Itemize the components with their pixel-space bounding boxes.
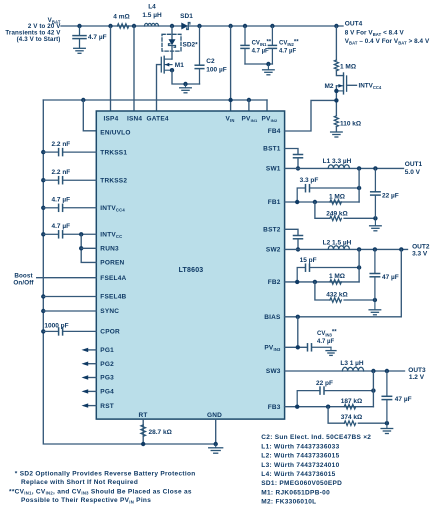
svg-text:FB4: FB4 xyxy=(268,128,281,135)
svg-text:4.7 µF: 4.7 µF xyxy=(88,34,107,41)
svg-text:4.7 µF: 4.7 µF xyxy=(252,49,269,55)
node junction FB3/374k xyxy=(326,405,330,409)
ground OUT2 xyxy=(369,300,381,315)
svg-text:1 MΩ: 1 MΩ xyxy=(340,63,356,70)
node OUT3 labels xyxy=(408,367,426,381)
wire 110k to ground xyxy=(335,127,337,132)
svg-text:Boost: Boost xyxy=(14,273,33,280)
svg-text:2.2 nF: 2.2 nF xyxy=(52,169,71,176)
node VBAT input labels xyxy=(5,17,61,43)
svg-text:L1 3.3 µH: L1 3.3 µH xyxy=(323,158,352,165)
svg-text:OUT2: OUT2 xyxy=(412,243,430,250)
svg-text:TRKSS1: TRKSS1 xyxy=(100,149,127,156)
svg-text:TRKSS2: TRKSS2 xyxy=(100,177,127,184)
svg-text:OUT1: OUT1 xyxy=(405,161,423,168)
wire CVIN1/CVIN2 ground bus xyxy=(245,63,272,65)
wire PG4 arrow xyxy=(87,390,96,392)
node junction PVIN1 pin xyxy=(247,98,251,102)
svg-text:INTVCC4: INTVCC4 xyxy=(359,83,382,90)
wire PVIN2 drop xyxy=(266,100,268,111)
transistor M2 NMOS xyxy=(336,73,346,94)
svg-text:15 pF: 15 pF xyxy=(300,257,317,264)
wire SYNC xyxy=(43,310,96,312)
ground CVIN caps xyxy=(263,64,275,75)
node junction VIN pin xyxy=(228,98,232,102)
wire ISP4 to rail xyxy=(110,26,112,111)
svg-text:SYNC: SYNC xyxy=(100,308,119,315)
wire EN/UVLO drop xyxy=(83,100,96,131)
node OUT2 labels xyxy=(412,243,430,257)
svg-text:SD1: PMEG060V050EPD: SD1: PMEG060V050EPD xyxy=(261,480,342,487)
svg-text:CPOR: CPOR xyxy=(100,329,120,336)
svg-text:PG3: PG3 xyxy=(100,375,114,382)
wire PG2 arrow xyxy=(87,363,96,365)
node junction INTVCC/RUN3 xyxy=(79,232,83,236)
wire GND pin drop xyxy=(215,419,217,444)
svg-text:PG4: PG4 xyxy=(100,389,114,396)
ground OUT3 xyxy=(381,423,393,433)
wire M2 gate to INTVCC4 xyxy=(347,84,357,86)
svg-text:100 µF: 100 µF xyxy=(206,66,226,73)
svg-text:FSEL4B: FSEL4B xyxy=(100,294,126,301)
node junction FB3/22pF xyxy=(295,405,299,409)
wire VIN distribution / EN-UVLO horizontal xyxy=(43,99,267,101)
wire FB3 xyxy=(285,406,374,408)
wire PG1 arrow xyxy=(87,349,96,351)
svg-text:RT: RT xyxy=(138,412,147,419)
node junction L2/FB vertical xyxy=(357,247,361,251)
capacitor 22uF OUT1 xyxy=(371,168,380,218)
wire FSEL4B xyxy=(43,296,96,298)
svg-text:BST1: BST1 xyxy=(263,146,281,153)
ground main xyxy=(209,444,223,453)
node junction FB1/3.3pF xyxy=(295,200,299,204)
wire M1 gate to GATE4 xyxy=(157,65,162,111)
node junction 3.3pF/1M vertical xyxy=(357,186,361,190)
node Boost On/Off label xyxy=(13,273,34,287)
svg-text:OUT3: OUT3 xyxy=(408,367,426,374)
svg-text:5.0 V: 5.0 V xyxy=(405,169,421,176)
node junction GND/ground rail xyxy=(214,442,218,446)
svg-text:SD2*: SD2* xyxy=(183,42,199,49)
svg-text:22 µF: 22 µF xyxy=(382,192,399,199)
capacitor 47uF OUT2 xyxy=(370,249,379,300)
capacitor CVIN3 4.7uF xyxy=(317,330,337,345)
svg-text:47 µF: 47 µF xyxy=(382,274,399,281)
wire FB2 top divider vertical xyxy=(358,249,360,282)
node junction RT/ground rail xyxy=(141,442,145,446)
wire BIAS to PVIN3 xyxy=(297,317,299,348)
wire 1M to M2 drain xyxy=(336,71,343,76)
node junction L3/47uF xyxy=(385,369,389,373)
wire FB2 xyxy=(285,281,360,283)
node junction 15pF/1M vertical xyxy=(357,265,361,269)
svg-text:ISP4: ISP4 xyxy=(104,115,119,122)
resistor 110k xyxy=(334,116,338,127)
svg-text:RUN3: RUN3 xyxy=(100,246,119,253)
svg-text:L2: Würth 74437336015: L2: Würth 74437336015 xyxy=(261,453,339,460)
svg-text:3.3 V: 3.3 V xyxy=(412,251,428,258)
wire RT drop xyxy=(142,419,144,444)
svg-text:GATE4: GATE4 xyxy=(147,115,169,122)
svg-text:**CVIN1, CVIN2, and CVIN3 Shou: **CVIN1, CVIN2, and CVIN3 Should Be Plac… xyxy=(9,488,192,495)
capacitor BST1 xyxy=(294,155,303,158)
note parts list xyxy=(261,434,371,505)
wire VBAT top rail xyxy=(61,25,343,27)
ground input cap xyxy=(74,48,86,53)
wire BST2 xyxy=(285,229,298,235)
node OUT4 labels xyxy=(345,21,430,46)
wire FB3 top divider vertical xyxy=(372,371,374,407)
svg-text:L1: Würth 74437336033: L1: Würth 74437336033 xyxy=(261,443,339,450)
svg-text:249 kΩ: 249 kΩ xyxy=(326,210,347,217)
svg-text:POREN: POREN xyxy=(100,260,124,267)
node junction TRKSS2/bus xyxy=(41,178,45,182)
node junction M2 source xyxy=(334,89,338,93)
node junction SYNC/bus xyxy=(41,309,45,313)
wire SW3 output xyxy=(285,370,405,372)
wire ISN4 to rail xyxy=(133,26,135,111)
node junction SD1/C2 xyxy=(197,24,201,28)
svg-text:LT8603: LT8603 xyxy=(179,267,204,274)
svg-text:C2: Sun Elect. Ind. 50CE47BS ×: C2: Sun Elect. Ind. 50CE47BS ×2 xyxy=(261,434,371,441)
node junction L1/22uF xyxy=(373,166,377,170)
resistor RT 28.7k xyxy=(141,425,146,436)
svg-text:C2: C2 xyxy=(206,58,215,65)
node junction M1 source xyxy=(170,68,174,72)
svg-text:28.7 kΩ: 28.7 kΩ xyxy=(149,429,172,436)
node junction OUT2/BIAS xyxy=(399,247,403,251)
capacitor CVIN1 4.7uF xyxy=(241,26,249,64)
svg-text:RST: RST xyxy=(100,403,114,410)
svg-text:187 kΩ: 187 kΩ xyxy=(341,398,362,405)
node junction CVIN2/rail xyxy=(270,24,274,28)
svg-text:M1: M1 xyxy=(175,62,184,69)
node junction BIAS/CVIN3 xyxy=(296,315,300,319)
svg-text:3.3 pF: 3.3 pF xyxy=(300,177,319,184)
wire SW2 output xyxy=(285,248,408,250)
inductor L4 1.5uH xyxy=(142,3,162,19)
wire M1 source to ground rail xyxy=(172,70,200,84)
wire left ground bus xyxy=(43,100,215,444)
wire FB4 to divider xyxy=(285,100,337,131)
svg-text:4.7 µF: 4.7 µF xyxy=(52,197,71,204)
note asterisk SD2 xyxy=(9,470,195,504)
svg-text:SW1: SW1 xyxy=(266,166,281,173)
svg-text:1000 pF: 1000 pF xyxy=(44,322,68,329)
svg-text:1.5 µH: 1.5 µH xyxy=(142,12,162,19)
node OUT1 labels xyxy=(405,161,423,176)
node junction PVIN3/CVIN3 xyxy=(296,345,300,349)
svg-text:2.2 nF: 2.2 nF xyxy=(52,141,71,148)
ground 110k xyxy=(331,132,343,137)
svg-text:* SD2 Optionally Provides Reve: * SD2 Optionally Provides Reverse Batter… xyxy=(15,470,196,477)
svg-text:GND: GND xyxy=(207,412,222,419)
svg-text:374 kΩ: 374 kΩ xyxy=(341,414,362,421)
wire PG3 arrow xyxy=(87,377,96,379)
svg-text:EN/UVLO: EN/UVLO xyxy=(100,129,130,136)
svg-text:FB2: FB2 xyxy=(268,279,281,286)
svg-text:FB1: FB1 xyxy=(268,199,281,206)
op-amp U1 LT8603 IC body xyxy=(96,111,284,419)
node junction CVIN1/rail xyxy=(243,24,247,28)
svg-text:FSEL4A: FSEL4A xyxy=(100,275,126,282)
svg-text:BST2: BST2 xyxy=(263,227,281,234)
svg-text:On/Off: On/Off xyxy=(13,280,34,287)
svg-text:FB3: FB3 xyxy=(268,404,281,411)
svg-text:BIAS: BIAS xyxy=(264,314,281,321)
wire SW1 output xyxy=(285,167,404,169)
node junction FB1/249k xyxy=(313,200,317,204)
svg-text:L4: Würth 7443736015: L4: Würth 7443736015 xyxy=(261,471,335,478)
diode SD2 reverse protection (dashed box) xyxy=(162,34,181,51)
wire RST arrow xyxy=(87,405,96,407)
node junction ISP4/rail xyxy=(108,24,112,28)
node junction 432k/47uF ground xyxy=(373,298,377,302)
svg-text:CVIN2**: CVIN2** xyxy=(279,39,299,47)
capacitor BST2 xyxy=(294,236,303,239)
node junction 374k/47uF ground xyxy=(385,421,389,425)
capacitor 47uF OUT3 xyxy=(382,371,391,423)
node junction 249k/22uF ground xyxy=(373,216,377,220)
node junction 22pF/187k vertical xyxy=(371,388,375,392)
node junction FSEL4B/bus xyxy=(41,294,45,298)
node junction RUN3 xyxy=(79,246,83,250)
node junction FB2/15pF xyxy=(295,280,299,284)
node junction L3/FB vertical xyxy=(371,369,375,373)
wire M1 drain up xyxy=(171,26,173,59)
svg-text:1.2 V: 1.2 V xyxy=(409,374,425,381)
node junction VIN feed/rail xyxy=(228,24,232,28)
svg-text:PG2: PG2 xyxy=(100,361,114,368)
svg-text:Replace with Short If Not Requ: Replace with Short If Not Required xyxy=(21,479,138,486)
capacitor C2 100uF xyxy=(195,26,204,84)
node junction BST1/SW1 xyxy=(296,166,300,170)
node junction CPOR/bus xyxy=(41,329,45,333)
svg-text:SW3: SW3 xyxy=(266,368,281,375)
resistor 1M OUT4 divider xyxy=(334,60,338,71)
node junction L4/SD1/SD2 xyxy=(170,24,174,28)
wire OUT2 to BIAS xyxy=(285,249,402,316)
node junction INTVCC/bus xyxy=(41,232,45,236)
transistor M1 NMOS xyxy=(161,56,172,73)
wire BST1 xyxy=(285,149,298,154)
wire FSEL4A boost on/off xyxy=(37,277,97,279)
node junction L1/FB vertical xyxy=(357,166,361,170)
node junction FB4/110k xyxy=(334,98,338,102)
wire OUT4 to 1M xyxy=(335,26,337,60)
node junction VBAT/C1 xyxy=(77,24,81,28)
svg-text:SD1: SD1 xyxy=(180,13,193,20)
node junction EN/UVLO xyxy=(81,98,85,102)
node junction FB2/432k xyxy=(313,280,317,284)
svg-text:Possible to Their Respective P: Possible to Their Respective PVIN Pins xyxy=(21,497,151,504)
svg-text:432 kΩ: 432 kΩ xyxy=(326,291,347,298)
node junction OUT4/rail xyxy=(334,24,338,28)
node junction BST2/SW2 xyxy=(296,247,300,251)
wire FB1 xyxy=(285,201,360,203)
node junction ISN4/rail xyxy=(132,24,136,28)
svg-text:(4.3 V to Start): (4.3 V to Start) xyxy=(17,36,61,43)
svg-text:4.7 µF: 4.7 µF xyxy=(279,49,296,55)
svg-text:M2: FK3306010L: M2: FK3306010L xyxy=(261,499,316,506)
svg-text:CVIN3**: CVIN3** xyxy=(317,330,337,338)
svg-text:22 pF: 22 pF xyxy=(316,380,333,387)
wire PVIN1 drop xyxy=(248,100,250,111)
ground OUT1 xyxy=(370,218,382,231)
node junction INTVCC4/bus xyxy=(41,206,45,210)
svg-text:M2: M2 xyxy=(324,83,333,90)
node junction L2/47uF xyxy=(373,247,377,251)
node junction CV ground xyxy=(266,62,270,66)
wire RUN3 stub xyxy=(81,247,96,249)
svg-text:L4: L4 xyxy=(148,3,156,10)
svg-text:L3: Würth 74437324010: L3: Würth 74437324010 xyxy=(261,462,339,469)
svg-text:OUT4: OUT4 xyxy=(345,21,363,28)
node junction M1/C2 ground xyxy=(183,82,187,86)
svg-text:4 mΩ: 4 mΩ xyxy=(113,14,129,21)
svg-text:47 µF: 47 µF xyxy=(395,396,412,403)
svg-text:PG1: PG1 xyxy=(100,347,114,354)
capacitor 4.7uF input xyxy=(73,26,86,48)
svg-text:110 kΩ: 110 kΩ xyxy=(340,120,361,127)
svg-text:4.7 µF: 4.7 µF xyxy=(52,223,71,230)
svg-text:ISN4: ISN4 xyxy=(127,115,142,122)
wire FB1 top divider vertical xyxy=(358,168,360,202)
capacitor CVIN2 4.7uF xyxy=(268,26,276,64)
svg-text:4.7 µF: 4.7 µF xyxy=(317,339,334,345)
ground CVIN3 xyxy=(326,347,336,355)
wire VIN feed down xyxy=(230,26,232,111)
svg-text:M1: RJK0651DPB-00: M1: RJK0651DPB-00 xyxy=(261,489,330,496)
wire PVIN3 xyxy=(285,346,307,348)
ground M1/C2 xyxy=(180,84,192,93)
node junction TRKSS1/bus xyxy=(41,150,45,154)
svg-text:SW2: SW2 xyxy=(266,247,281,254)
wire M2 source down xyxy=(335,86,337,116)
svg-text:8 V For VBAT < 8.4 V: 8 V For VBAT < 8.4 V xyxy=(345,30,405,37)
svg-text:VBAT – 0.4 V For VBAT > 8.4 V: VBAT – 0.4 V For VBAT > 8.4 V xyxy=(345,38,430,45)
wire RUN3/POREN tie xyxy=(81,234,96,262)
svg-text:L3 1 µH: L3 1 µH xyxy=(340,360,364,367)
